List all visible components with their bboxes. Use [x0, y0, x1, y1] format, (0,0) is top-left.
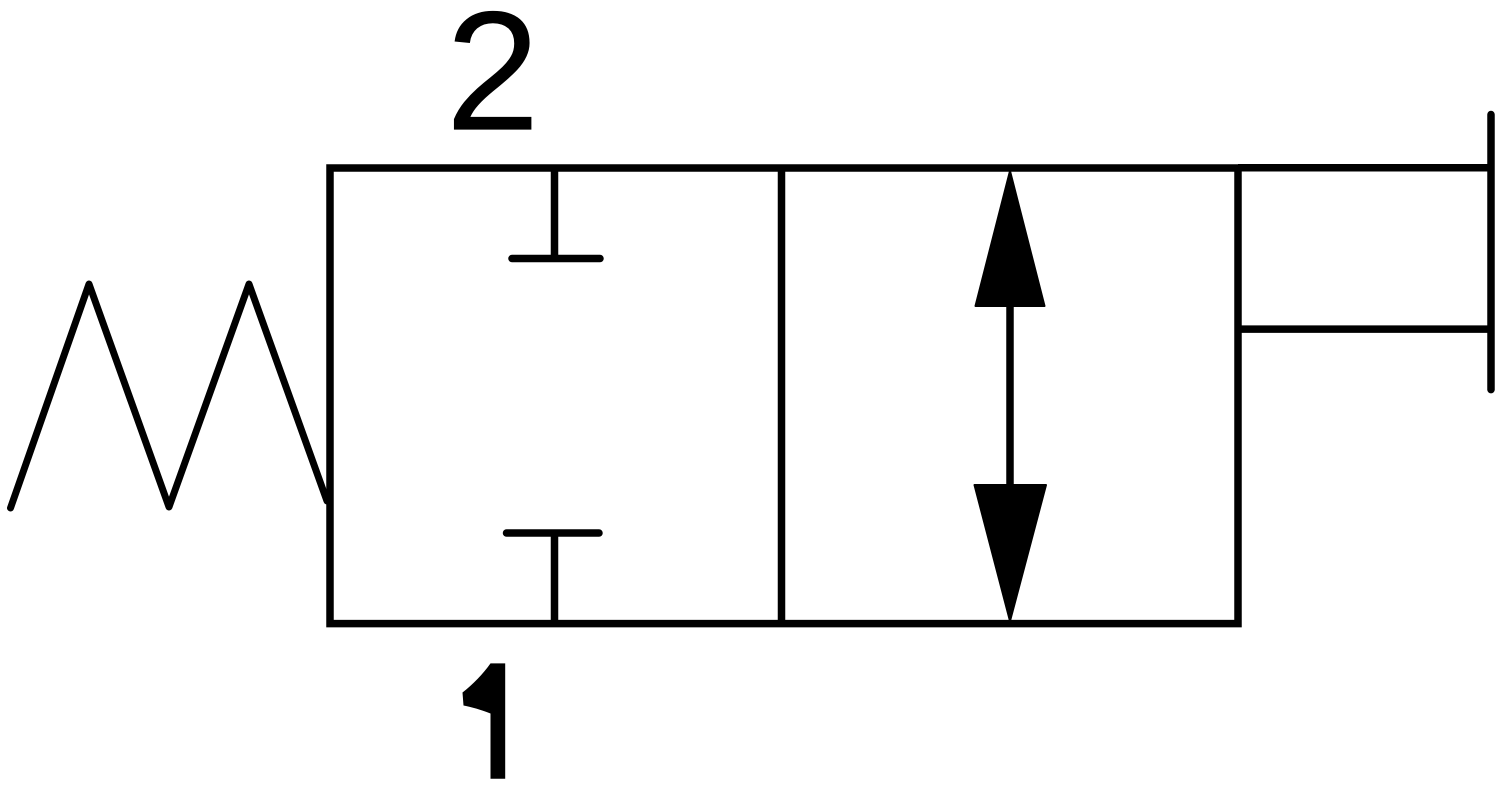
port 2 blocked-port bar: [512, 255, 600, 263]
valve body center divider: [778, 168, 786, 624]
port label 1: [463, 663, 506, 778]
flow arrow upper head: [976, 171, 1045, 306]
valve body left cell outline: [330, 168, 1238, 624]
actuator top line: [1238, 164, 1491, 172]
svg-text:2: 2: [445, 0, 540, 167]
actuator end plate (vertical bar): [1487, 115, 1495, 390]
spring (return spring, left side): [11, 284, 328, 508]
flow arrow stem: [1006, 302, 1014, 488]
port 2 blocked-port stem: [551, 168, 559, 259]
port 1 blocked-port stem: [551, 533, 559, 624]
flow arrow lower head: [975, 485, 1047, 621]
port 1 blocked-port bar: [507, 529, 600, 537]
actuator bottom line: [1238, 325, 1491, 333]
